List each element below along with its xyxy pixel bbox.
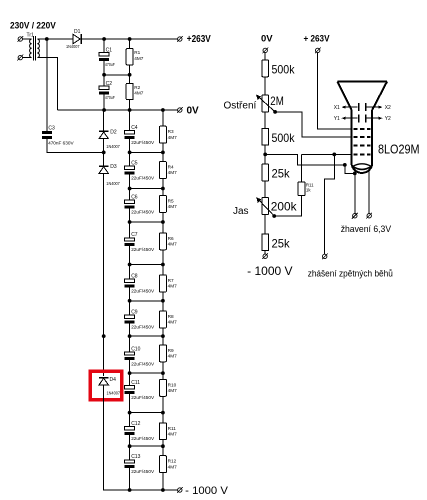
terminal +263V	[177, 36, 183, 42]
capacitor C10	[125, 352, 135, 360]
wire 500k lower to node	[264, 145, 266, 164]
capacitor C5	[125, 166, 135, 174]
wire R12 bottom lead	[162, 473, 164, 490]
svg-text:0V: 0V	[261, 34, 273, 45]
wire R2 top lead	[129, 75, 131, 84]
node rung resistor column	[161, 151, 165, 155]
capacitor C13	[125, 460, 135, 468]
svg-text:zhášení zpětných běhů: zhášení zpětných běhů	[308, 269, 393, 280]
svg-text:R6: R6	[168, 236, 174, 241]
pot 2M wiper arrow	[256, 95, 275, 112]
svg-text:D4: D4	[110, 377, 117, 383]
wire heater pin right	[368, 170, 370, 214]
capacitor C2	[99, 86, 109, 94]
svg-text:D1: D1	[74, 29, 81, 35]
svg-text:4M7: 4M7	[168, 320, 178, 325]
svg-text:C9: C9	[131, 310, 138, 316]
svg-text:1N4007: 1N4007	[107, 390, 121, 395]
svg-text:470uF: 470uF	[105, 95, 115, 100]
svg-text:R5: R5	[168, 199, 174, 204]
svg-text:Y2: Y2	[385, 116, 391, 122]
svg-text:Ostření: Ostření	[224, 101, 257, 112]
wire C12 top lead	[129, 413, 131, 427]
wire R7 top lead	[162, 265, 164, 276]
wire R1 bottom lead	[129, 65, 131, 75]
capacitor C1	[99, 53, 109, 61]
wire R11 to 200k wiper	[274, 195, 301, 216]
diode D2	[99, 131, 109, 138]
resistor R5	[159, 196, 166, 213]
capacitor C4	[125, 131, 135, 139]
pin arrow Y1	[341, 117, 357, 120]
svg-text:- 1000 V: - 1000 V	[247, 266, 293, 278]
resistor R5a 500k	[262, 60, 269, 77]
terminal mains N	[17, 55, 23, 61]
wire cascade rung	[130, 372, 163, 374]
CRT grid/anode electrode 3 (dashed)	[353, 145, 370, 147]
resistor R2	[126, 83, 133, 99]
node bottom rail cap column	[128, 488, 132, 492]
wire secondary bottom to 0V rail	[37, 58, 57, 110]
CRT cathode dome arc	[353, 164, 372, 167]
pin arrow Y2	[366, 117, 382, 120]
svg-text:Jas: Jas	[233, 206, 249, 217]
node heater pin junction	[353, 172, 357, 176]
wire 500k to 2M	[264, 77, 266, 95]
wire R1 top lead	[129, 39, 131, 49]
svg-text:22uF/450V: 22uF/450V	[131, 469, 155, 474]
terminal 0V	[177, 107, 183, 113]
resistor R1	[126, 49, 133, 65]
resistor R9	[159, 345, 166, 362]
pin arrow X1	[341, 106, 357, 109]
svg-text:žhavení 6,3V: žhavení 6,3V	[341, 224, 392, 235]
svg-text:22uF/450V: 22uF/450V	[131, 289, 155, 294]
resistor 500k lower	[262, 128, 269, 145]
svg-text:R12: R12	[168, 459, 177, 464]
resistor R10	[159, 379, 166, 396]
svg-text:C11: C11	[131, 380, 140, 386]
svg-text:500k: 500k	[272, 63, 296, 77]
wire R11 bottom lead	[162, 440, 164, 447]
terminal blanking input	[322, 254, 328, 260]
svg-text:22uF/450V: 22uF/450V	[131, 210, 155, 215]
terminal -1000V right	[262, 253, 268, 259]
wire C8 bottom lead	[129, 288, 131, 301]
svg-text:D3: D3	[110, 164, 117, 170]
wire C5 bottom lead	[129, 175, 131, 189]
svg-text:1k: 1k	[306, 188, 311, 193]
wire R11 top lead	[162, 413, 164, 423]
svg-text:4M7: 4M7	[134, 56, 144, 61]
node rung resistor column	[161, 334, 165, 338]
svg-text:470uF: 470uF	[105, 62, 115, 67]
svg-text:0V: 0V	[187, 106, 200, 117]
wire heater pin left	[354, 170, 356, 214]
potentiometer 2M (Ostreni/focus)	[262, 95, 269, 112]
svg-text:C10: C10	[131, 346, 140, 352]
svg-text:8LO29M: 8LO29M	[378, 142, 420, 156]
svg-text:Tr1: Tr1	[27, 33, 35, 39]
svg-text:R8: R8	[168, 314, 174, 319]
CRT grid/anode electrode 1 (dashed)	[353, 128, 370, 130]
highlight red box	[90, 371, 122, 400]
svg-text:22uF/450V: 22uF/450V	[131, 325, 155, 330]
wire C1 top lead	[103, 39, 105, 53]
wire diode column top lead	[103, 110, 105, 131]
resistor 25k upper	[262, 164, 269, 181]
wire R4 top lead	[162, 152, 164, 161]
wire cascade rung	[130, 445, 163, 447]
resistor R12	[159, 456, 166, 473]
wire C1/C2 junction rung	[104, 74, 130, 76]
wire C4 bottom lead	[129, 139, 131, 152]
node rung cap column	[128, 411, 132, 415]
svg-text:C12: C12	[131, 421, 140, 427]
node R1-R2 junction	[128, 73, 132, 77]
node spine junction mid	[102, 334, 106, 338]
svg-text:25k: 25k	[272, 236, 291, 250]
wire C2 top lead	[103, 75, 105, 86]
wire grid to R11	[301, 154, 303, 182]
wire R6 bottom lead	[162, 250, 164, 265]
resistor R11 1k	[298, 182, 305, 196]
node divider cathode junction	[263, 153, 267, 157]
svg-text:22uF/450V: 22uF/450V	[131, 395, 155, 400]
deflection plate Y right	[365, 114, 367, 122]
svg-text:C6: C6	[131, 195, 138, 201]
wire R8 bottom lead	[162, 328, 164, 336]
wire C6 bottom lead	[129, 209, 131, 223]
svg-text:4M7: 4M7	[134, 91, 144, 96]
capacitor C12	[125, 427, 135, 435]
node rung resistor column	[161, 299, 165, 303]
node rung cap column	[128, 263, 132, 267]
node rung cap column	[128, 371, 132, 375]
svg-text:4M7: 4M7	[168, 464, 178, 469]
node rung resistor column	[161, 411, 165, 415]
CRT tube 8LO29M envelope	[338, 82, 388, 173]
resistor R7	[159, 275, 166, 292]
resistor R6	[159, 233, 166, 250]
node 200k wiper	[272, 214, 276, 218]
wire 0V rail	[57, 109, 177, 111]
svg-text:22uF/450V: 22uF/450V	[131, 436, 155, 441]
node rung cap column	[128, 299, 132, 303]
svg-text:4M7: 4M7	[168, 431, 178, 436]
deflection plate X left	[358, 103, 360, 111]
capacitor C9	[125, 315, 135, 323]
diode D1	[73, 34, 81, 44]
svg-text:+263V: +263V	[187, 34, 211, 45]
wire R5 bottom lead	[162, 212, 164, 222]
node cascade cap column on 0V	[128, 108, 132, 112]
wire C11 bottom lead	[129, 394, 131, 413]
wire to heater pin	[345, 165, 355, 174]
wire C12 bottom lead	[129, 435, 131, 446]
node rung resistor column	[161, 444, 165, 448]
capacitor C7	[125, 238, 135, 246]
node rung resistor column	[161, 371, 165, 375]
svg-text:C3: C3	[48, 125, 55, 131]
terminal -1000V left	[177, 487, 183, 493]
svg-text:4M7: 4M7	[168, 388, 178, 393]
terminal heater right	[366, 213, 372, 219]
wire C3 branch from +263V rail	[46, 39, 48, 131]
wire spine D3 anode down	[103, 173, 105, 376]
svg-text:R3: R3	[168, 129, 174, 134]
wire 25k lower to terminal	[264, 251, 266, 254]
svg-text:Y1: Y1	[334, 116, 340, 122]
wire R12 top lead	[162, 446, 164, 456]
svg-text:C1: C1	[106, 47, 113, 53]
resistor R8	[159, 311, 166, 328]
wire C6 top lead	[129, 189, 131, 201]
wire C10 bottom lead	[129, 360, 131, 373]
wire C10 top lead	[129, 336, 131, 352]
wire R3 bottom lead	[162, 143, 164, 152]
svg-text:X1: X1	[334, 105, 340, 111]
wire R9 bottom lead	[162, 362, 164, 373]
wire C11 top lead	[129, 373, 131, 386]
wire C8 top lead	[129, 265, 131, 280]
wire C4 top lead	[129, 110, 131, 131]
svg-text:- 1000 V: - 1000 V	[185, 485, 228, 497]
svg-text:2M: 2M	[270, 94, 284, 108]
wire C5 top lead	[129, 152, 131, 166]
node rung cap column	[128, 444, 132, 448]
svg-text:4M7: 4M7	[168, 354, 178, 359]
svg-text:1N4007: 1N4007	[66, 44, 80, 49]
svg-text:R1: R1	[134, 50, 140, 55]
terminal +263V right	[315, 48, 321, 54]
terminal heater left	[352, 213, 358, 219]
svg-text:C13: C13	[131, 454, 140, 460]
node rung cap column	[128, 151, 132, 155]
svg-text:C4: C4	[131, 125, 138, 131]
terminal 0V right	[262, 48, 268, 54]
node cascade resistor column on 0V	[161, 108, 165, 112]
svg-text:4M7: 4M7	[168, 284, 178, 289]
wire cascade rung	[130, 151, 163, 153]
svg-text:R10: R10	[168, 382, 177, 387]
wire +263V to anode	[318, 53, 352, 129]
node C1-C2 junction	[102, 73, 106, 77]
svg-text:4M7: 4M7	[168, 135, 178, 140]
wire R10 top lead	[162, 373, 164, 379]
terminal mains L	[17, 36, 23, 42]
deflection plate Y left	[358, 114, 360, 122]
node cascade node 1	[102, 151, 106, 155]
svg-text:C5: C5	[131, 161, 138, 167]
diode D3	[99, 166, 109, 173]
wire cathode node step	[265, 154, 345, 165]
wire D2 to node	[103, 139, 105, 166]
wire 25k to 200k	[264, 181, 266, 198]
wire R2 bottom lead	[129, 100, 131, 110]
wire R4 bottom lead	[162, 179, 164, 189]
CRT grid/anode electrode 2 (dashed)	[353, 136, 370, 138]
pin arrow X2	[366, 106, 382, 109]
svg-text:R7: R7	[168, 278, 174, 283]
node 2M wiper	[273, 110, 277, 114]
transformer Tr1	[23, 36, 40, 61]
wire R10 bottom lead	[162, 396, 164, 412]
capacitor C8	[125, 279, 135, 287]
resistor R3	[159, 126, 166, 143]
wire cascade rung	[130, 300, 163, 302]
svg-text:22uF/450V: 22uF/450V	[131, 176, 155, 181]
svg-text:C7: C7	[131, 232, 138, 238]
svg-text:4M7: 4M7	[168, 204, 178, 209]
wire C7 bottom lead	[129, 246, 131, 264]
wire R7 bottom lead	[162, 292, 164, 301]
wire R8 top lead	[162, 301, 164, 311]
wire C2 bottom lead	[103, 95, 105, 111]
wire C1 bottom lead	[103, 61, 105, 75]
svg-text:230V / 220V: 230V / 220V	[10, 20, 56, 31]
node rung resistor column	[161, 187, 165, 191]
node C2 bottom / diode column on 0V	[102, 108, 106, 112]
wire blanking input	[325, 154, 335, 254]
wire C9 top lead	[129, 301, 131, 315]
capacitor C3	[42, 131, 52, 139]
svg-text:470nF 630V: 470nF 630V	[48, 140, 74, 145]
node rung resistor column	[161, 263, 165, 267]
wire cascade rung	[130, 221, 163, 223]
svg-text:22uF/450V: 22uF/450V	[131, 247, 155, 252]
wire R3 top lead	[162, 110, 164, 126]
resistor R4	[159, 162, 166, 179]
svg-text:R9: R9	[168, 348, 174, 353]
svg-text:R2: R2	[134, 85, 140, 90]
svg-text:X2: X2	[385, 105, 391, 111]
svg-text:R4: R4	[168, 165, 174, 170]
wire R9 top lead	[162, 336, 164, 345]
svg-text:22uF/450V: 22uF/450V	[131, 361, 155, 366]
resistor R11	[159, 423, 166, 440]
wire focus (2M wiper) to tube	[275, 112, 352, 137]
wire C13 top lead	[129, 446, 131, 460]
wire grid net	[302, 153, 353, 155]
potentiometer 200k (Jas/brightness)	[262, 198, 269, 215]
wire 2M to 500k lower	[264, 112, 266, 128]
svg-text:C2: C2	[106, 81, 113, 87]
wire cascade rung	[130, 264, 163, 266]
wire spine D4 anode to bottom rail	[104, 385, 178, 490]
capacitor C11	[125, 386, 135, 394]
wire C9 bottom lead	[129, 324, 131, 337]
svg-text:4M7: 4M7	[168, 242, 178, 247]
node rung cap column	[128, 220, 132, 224]
svg-text:1N4007: 1N4007	[106, 144, 120, 149]
wire secondary top to rail	[37, 38, 73, 40]
svg-text:+ 263V: + 263V	[304, 34, 331, 45]
node R1 top junction	[128, 37, 132, 41]
capacitor C6	[125, 200, 135, 208]
deflection plate X right	[365, 103, 367, 111]
svg-text:22uF/450V: 22uF/450V	[131, 140, 155, 145]
svg-text:C8: C8	[131, 274, 138, 280]
wire C3 bottom to diode column	[47, 139, 104, 153]
node grid / blanking junction	[332, 153, 336, 157]
wire R6 top lead	[162, 222, 164, 233]
node C1 top junction	[102, 37, 106, 41]
wire C13 bottom lead	[129, 468, 131, 490]
resistor 25k lower	[262, 234, 269, 251]
CRT grid/anode electrode 4 (dashed)	[353, 153, 370, 155]
diode D4 (highlighted)	[99, 378, 109, 385]
wire cascade rung	[130, 412, 163, 414]
node secondary top junction	[45, 37, 49, 41]
node rung cap column	[128, 187, 132, 191]
wire cascade rung	[130, 335, 163, 337]
node rung resistor column	[161, 220, 165, 224]
node rung cap column	[128, 334, 132, 338]
wire cascade rung	[130, 188, 163, 190]
wire 0V to divider	[264, 53, 266, 60]
svg-text:200k: 200k	[271, 200, 298, 214]
svg-text:1N4007: 1N4007	[106, 181, 120, 186]
svg-text:D2: D2	[110, 129, 117, 135]
node bottom rail resistor column	[161, 488, 165, 492]
wire 200k to 25k lower	[264, 214, 266, 233]
svg-text:4M7: 4M7	[168, 170, 178, 175]
wire C7 top lead	[129, 222, 131, 238]
svg-text:500k: 500k	[272, 131, 296, 145]
svg-text:25k: 25k	[272, 167, 291, 181]
svg-text:R11: R11	[168, 426, 177, 431]
wire R5 top lead	[162, 189, 164, 196]
wire +263V rail	[81, 38, 178, 40]
pot 200k wiper arrow	[256, 197, 274, 216]
node cathode-heater junction	[343, 163, 347, 167]
